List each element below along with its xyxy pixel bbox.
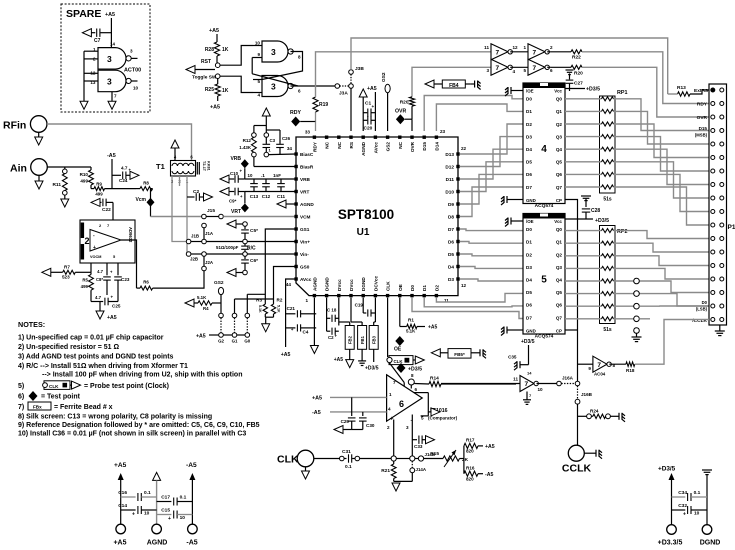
svg-text:D5: D5 bbox=[448, 252, 454, 257]
svg-text:1nF: 1nF bbox=[273, 173, 281, 178]
ground R21 bbox=[394, 480, 413, 482]
jumper J2B bbox=[186, 252, 191, 257]
wire switch to latch bbox=[220, 46, 253, 66]
svg-text:4) R/C --> Install 51Ω when d: 4) R/C --> Install 51Ω when driving from… bbox=[18, 363, 188, 370]
svg-text:820: 820 bbox=[466, 449, 474, 454]
inverter U4A bbox=[491, 44, 508, 60]
svg-text:D3: D3 bbox=[448, 277, 454, 282]
svg-text:D2: D2 bbox=[434, 285, 439, 291]
wire Vin- row bbox=[243, 252, 248, 257]
svg-text:Q3: Q3 bbox=[556, 134, 563, 139]
capacitor C27 bbox=[566, 69, 574, 71]
wire VCM to U1 bbox=[223, 216, 296, 218]
svg-text:C27: C27 bbox=[574, 81, 583, 87]
capacitor C22 bbox=[91, 198, 100, 206]
svg-text:1K: 1K bbox=[222, 47, 229, 53]
svg-text:FB3: FB3 bbox=[372, 335, 377, 344]
svg-text:= Test point: = Test point bbox=[41, 394, 81, 401]
ferrite bead FB1 bbox=[358, 326, 367, 350]
svg-text:Q2: Q2 bbox=[556, 122, 563, 127]
wire T1 pin3 to J1B bbox=[172, 176, 186, 242]
capacitor C17 0.1 bbox=[157, 501, 172, 503]
svg-text:-A5: -A5 bbox=[312, 410, 321, 416]
svg-text:CLK: CLK bbox=[394, 359, 404, 364]
svg-text:NC: NC bbox=[337, 141, 342, 148]
svg-text:CLK: CLK bbox=[386, 281, 391, 291]
svg-text:C6*: C6* bbox=[250, 258, 258, 264]
svg-text:AC04: AC04 bbox=[594, 372, 606, 377]
resistor R16 820 bbox=[464, 471, 478, 476]
test point to ground (RP2) bbox=[634, 328, 640, 334]
capacitor C26 bbox=[266, 129, 280, 131]
resistor R3 bbox=[263, 304, 267, 314]
svg-text:VRB: VRB bbox=[230, 156, 241, 162]
svg-text:DVcc: DVcc bbox=[349, 279, 354, 291]
wire latch cross-coupling bbox=[262, 52, 303, 80]
net +D3/5 latch 4 Vcc + C27 join bbox=[565, 88, 585, 90]
svg-text:5.1K: 5.1K bbox=[197, 295, 207, 300]
capacitor C31 0.1 bbox=[314, 458, 340, 460]
resistor R25 1K bbox=[215, 84, 220, 96]
svg-text:499: 499 bbox=[80, 179, 88, 184]
svg-text:R2: R2 bbox=[277, 298, 283, 303]
svg-text:R24: R24 bbox=[590, 409, 599, 414]
svg-text:+: + bbox=[132, 512, 135, 518]
jumper J16B bbox=[577, 386, 579, 400]
resistor R7 523 bbox=[42, 268, 51, 276]
wire VRB to U1 bbox=[245, 178, 296, 180]
svg-text:523: 523 bbox=[62, 275, 70, 280]
svg-text:D12: D12 bbox=[445, 165, 454, 170]
svg-text:/OE: /OE bbox=[526, 89, 534, 94]
svg-text:GS2: GS2 bbox=[214, 280, 224, 286]
capacitor C25 4.7 bbox=[91, 301, 103, 303]
svg-text:Vcc: Vcc bbox=[554, 89, 562, 94]
jumper J1A vertical bbox=[202, 223, 207, 228]
net +D3/5 latch 5 Vcc bbox=[565, 218, 593, 220]
op-amp U2 AD9632 block bbox=[80, 220, 135, 263]
resistor network RP1 bbox=[600, 96, 616, 193]
IC latch 4 ACQ574 body bbox=[523, 83, 565, 204]
resistor R20b bbox=[551, 66, 571, 68]
wire bus U1 D0-D2 to latch U6 bbox=[436, 293, 523, 302]
wire J3B to ExtRS (top route) bbox=[351, 38, 668, 94]
nand gate U3A (spare) bbox=[98, 48, 126, 70]
svg-text:D13: D13 bbox=[445, 152, 454, 157]
wire R15 to R16 R17 bbox=[460, 458, 464, 460]
svg-text:R16: R16 bbox=[466, 466, 475, 471]
svg-text:T2-1T: T2-1T bbox=[202, 161, 206, 172]
svg-text:2: 2 bbox=[85, 236, 90, 246]
svg-text:D14: D14 bbox=[434, 142, 439, 151]
svg-text:7: 7 bbox=[597, 362, 601, 369]
svg-text:G1: G1 bbox=[232, 339, 238, 344]
wire OVR to inverter U4C bbox=[412, 67, 491, 97]
svg-text:+: + bbox=[93, 245, 96, 251]
svg-text:+A5: +A5 bbox=[209, 28, 219, 34]
svg-text:J1A: J1A bbox=[205, 231, 214, 236]
svg-text:4: 4 bbox=[513, 69, 516, 74]
resistor R18 bbox=[609, 363, 626, 365]
U1 bottom pins bbox=[313, 294, 316, 297]
svg-text:OVR: OVR bbox=[395, 109, 406, 115]
jumper J3B bbox=[349, 70, 354, 75]
svg-text:VCM: VCM bbox=[300, 215, 311, 220]
svg-text:499: 499 bbox=[95, 192, 103, 197]
svg-text:Q7: Q7 bbox=[556, 185, 563, 190]
capacitor GND latch 5 bbox=[507, 329, 511, 331]
svg-text:NOTES:: NOTES: bbox=[18, 320, 45, 329]
ground P1 bbox=[719, 325, 721, 331]
capacitor C36 (FB4) bbox=[471, 83, 475, 85]
svg-text:P1: P1 bbox=[728, 224, 735, 231]
svg-text:Vcm: Vcm bbox=[135, 197, 146, 203]
capacitor C14 10 bbox=[121, 509, 136, 511]
capacitor C23 bbox=[117, 263, 119, 275]
resistor R12 1.43K bbox=[254, 125, 266, 127]
resistor R28 1K bbox=[214, 42, 219, 56]
inverter U4B bbox=[528, 44, 545, 60]
svg-text:ACQ574: ACQ574 bbox=[535, 334, 554, 340]
ground U8A bbox=[526, 392, 528, 400]
svg-text:2: 2 bbox=[550, 45, 553, 50]
capacitor C19 bbox=[362, 298, 364, 313]
svg-text:C9*: C9* bbox=[229, 199, 237, 204]
wire latch CP clock net bbox=[565, 200, 578, 382]
svg-text:10: 10 bbox=[255, 41, 261, 46]
svg-text:RP2: RP2 bbox=[617, 229, 628, 235]
svg-text:R20: R20 bbox=[574, 71, 583, 77]
svg-text:R8: R8 bbox=[143, 181, 149, 186]
wire pin2 to clock row bbox=[393, 420, 395, 457]
svg-text:+: + bbox=[111, 295, 114, 300]
svg-text:D7: D7 bbox=[526, 185, 532, 190]
svg-text:D15: D15 bbox=[699, 126, 708, 131]
svg-text:Q4: Q4 bbox=[556, 147, 563, 152]
resistor R8 bbox=[140, 187, 153, 191]
connector +A5 banana bbox=[116, 524, 126, 534]
wire BiasC row bbox=[264, 152, 269, 157]
ferrite bead FB2 bbox=[345, 326, 354, 350]
wire pins 5 6 latch enable bbox=[414, 392, 428, 394]
svg-text:12: 12 bbox=[513, 45, 519, 50]
svg-text:+D3/5: +D3/5 bbox=[595, 218, 609, 224]
svg-text:OE: OE bbox=[398, 284, 403, 291]
svg-text:C31: C31 bbox=[342, 449, 351, 455]
svg-text:DGND: DGND bbox=[325, 277, 330, 291]
svg-text:Vcc: Vcc bbox=[554, 219, 562, 224]
svg-text:Q4: Q4 bbox=[556, 278, 563, 283]
resistor R2 bbox=[271, 304, 275, 314]
svg-text:R20: R20 bbox=[400, 100, 409, 106]
svg-text:5: 5 bbox=[523, 68, 526, 73]
svg-text:GND: GND bbox=[526, 198, 536, 203]
svg-text:3: 3 bbox=[107, 54, 112, 64]
svg-text:+A5: +A5 bbox=[312, 396, 322, 402]
svg-text:Q0: Q0 bbox=[556, 227, 563, 232]
svg-text:OE: OE bbox=[394, 347, 402, 353]
svg-text:C5*: C5* bbox=[250, 228, 258, 234]
svg-text:Q1: Q1 bbox=[556, 240, 563, 245]
svg-text:= Probe test point (Clock): = Probe test point (Clock) bbox=[84, 383, 169, 390]
svg-text:R3: R3 bbox=[256, 298, 262, 303]
svg-text:R7: R7 bbox=[64, 265, 70, 270]
svg-text:0.1: 0.1 bbox=[345, 464, 352, 470]
wire RP2 outputs to P1 bbox=[614, 231, 710, 239]
svg-text:1: 1 bbox=[305, 298, 308, 303]
svg-text:+D3/5: +D3/5 bbox=[521, 339, 535, 345]
svg-text:11: 11 bbox=[484, 45, 489, 50]
svg-text:(MSB): (MSB) bbox=[695, 133, 708, 138]
svg-text:Q1: Q1 bbox=[556, 109, 563, 114]
capacitor C15 10 bbox=[157, 514, 172, 516]
svg-text:AGND: AGND bbox=[312, 277, 317, 291]
svg-text:Q6: Q6 bbox=[556, 303, 563, 308]
svg-text:RST: RST bbox=[201, 59, 211, 65]
junction pin2 clock row bbox=[391, 456, 396, 461]
svg-text:SPARE: SPARE bbox=[66, 8, 101, 20]
resistor R9 499 bbox=[91, 188, 94, 190]
resistor R5 499 bbox=[89, 275, 94, 291]
svg-text:D2: D2 bbox=[526, 122, 532, 127]
svg-text:Q7: Q7 bbox=[556, 315, 563, 320]
svg-text:R17: R17 bbox=[466, 438, 475, 443]
capacitor C21 bbox=[286, 313, 296, 315]
svg-text:J3B: J3B bbox=[355, 66, 364, 72]
svg-text:/OE: /OE bbox=[526, 219, 534, 224]
svg-text:FBx: FBx bbox=[33, 404, 42, 409]
capacitor C7 bbox=[82, 29, 91, 37]
svg-text:CP: CP bbox=[556, 198, 562, 203]
svg-text:+D3/5: +D3/5 bbox=[586, 87, 600, 93]
connector P1 pins bbox=[711, 88, 715, 92]
svg-text:+: + bbox=[683, 512, 686, 518]
wire RS net to U1 bbox=[350, 88, 352, 131]
jumper J2A vertical bbox=[203, 256, 205, 266]
svg-text:RS: RS bbox=[349, 142, 354, 149]
svg-text:9: 9 bbox=[257, 52, 260, 57]
svg-text:R28: R28 bbox=[205, 47, 214, 53]
svg-text:R19: R19 bbox=[319, 102, 328, 108]
svg-text:+: + bbox=[168, 516, 171, 522]
svg-text:U1: U1 bbox=[357, 227, 370, 238]
svg-text:1K: 1K bbox=[222, 88, 229, 94]
svg-text:51s: 51s bbox=[603, 327, 612, 333]
svg-text:4: 4 bbox=[257, 93, 260, 98]
svg-text:820: 820 bbox=[466, 477, 474, 482]
wire GS1 pulldown bbox=[265, 229, 296, 304]
svg-text:VRT: VRT bbox=[300, 190, 310, 195]
test point +D3/5 bbox=[397, 363, 406, 373]
svg-text:C12: C12 bbox=[262, 194, 271, 199]
svg-text:J14A: J14A bbox=[416, 467, 427, 472]
svg-text:C19: C19 bbox=[355, 303, 364, 308]
svg-text:D0: D0 bbox=[410, 285, 415, 291]
connector AGND banana bbox=[152, 524, 162, 534]
wire R19 to inverter U4A bbox=[316, 52, 492, 97]
resistor R22 bbox=[551, 51, 571, 53]
svg-text:C 18: C 18 bbox=[327, 308, 337, 313]
svg-text:7: 7 bbox=[393, 380, 396, 385]
capacitor /OE latch 4 bbox=[511, 90, 515, 92]
switch contact (RST bottom) bbox=[215, 74, 220, 79]
svg-text:4.7: 4.7 bbox=[121, 166, 128, 171]
svg-text:D9: D9 bbox=[448, 202, 454, 207]
svg-text:BiasC: BiasC bbox=[300, 152, 314, 157]
svg-text:+A5: +A5 bbox=[367, 86, 377, 92]
wire bus U1 D3-D7 to latch U6 bbox=[460, 229, 523, 231]
svg-text:D5: D5 bbox=[526, 290, 532, 295]
capacitor CCLK to ground bbox=[584, 452, 592, 454]
svg-text:C28: C28 bbox=[591, 208, 600, 214]
net +A5 rail (U1 AGND bypass) bbox=[286, 279, 296, 347]
svg-text:10: 10 bbox=[694, 511, 700, 517]
svg-text:DCVcc: DCVcc bbox=[373, 275, 378, 291]
inverter U8A clock bbox=[441, 383, 520, 385]
svg-text:C8*: C8* bbox=[96, 277, 103, 282]
svg-text:6: 6 bbox=[415, 387, 418, 392]
svg-text:D8: D8 bbox=[448, 215, 454, 220]
resistor R10 499 bbox=[90, 167, 92, 170]
test points on data lines bbox=[614, 305, 635, 307]
arrow AGND (comparator caps) bbox=[352, 429, 363, 431]
svg-text:+A5: +A5 bbox=[113, 540, 126, 547]
svg-text:R22: R22 bbox=[572, 55, 581, 61]
inverter U4D bbox=[528, 59, 545, 75]
net +A5 (bottom of R25) bbox=[217, 96, 219, 101]
svg-text:7: 7 bbox=[114, 94, 117, 99]
svg-text:AGND: AGND bbox=[300, 202, 314, 207]
svg-text:R9: R9 bbox=[96, 182, 102, 187]
svg-text:1.43K: 1.43K bbox=[239, 145, 252, 150]
svg-text:D6: D6 bbox=[526, 172, 532, 177]
svg-text:C23: C23 bbox=[121, 277, 130, 282]
svg-text:.1: .1 bbox=[261, 173, 265, 178]
wire T1 pin1 to J2B bbox=[185, 176, 188, 254]
connector CLK bbox=[297, 450, 314, 467]
svg-text:C29: C29 bbox=[341, 419, 350, 424]
svg-text:R25: R25 bbox=[205, 87, 214, 93]
svg-text:R5: R5 bbox=[82, 278, 88, 283]
svg-text:C3: C3 bbox=[270, 138, 276, 143]
svg-text:J16A: J16A bbox=[562, 376, 574, 381]
svg-text:3: 3 bbox=[271, 47, 276, 57]
capacitor C4 bbox=[286, 327, 296, 329]
capacitor C1 bbox=[363, 112, 367, 114]
jumper J15 bbox=[151, 216, 202, 218]
wire Vin+ row bbox=[243, 239, 248, 244]
svg-text:= Ferrite Bead # x: = Ferrite Bead # x bbox=[54, 404, 113, 411]
svg-text:4.7: 4.7 bbox=[95, 295, 102, 300]
capacitor C16 0.1 bbox=[121, 496, 136, 498]
svg-text:D15: D15 bbox=[422, 142, 427, 151]
svg-text:7: 7 bbox=[496, 65, 500, 72]
svg-text:R10: R10 bbox=[80, 172, 89, 177]
U1 top pins bbox=[313, 136, 316, 139]
svg-text:+D3/5: +D3/5 bbox=[658, 466, 676, 473]
jumper J3A bbox=[335, 84, 340, 89]
capacitor /OE latch 5 bbox=[511, 220, 515, 222]
svg-text:CLK: CLK bbox=[277, 454, 299, 466]
svg-text:GS0: GS0 bbox=[300, 265, 310, 270]
wire RFin to T1 bbox=[47, 124, 192, 161]
test point OE bbox=[395, 336, 404, 346]
resistor R21 bbox=[393, 461, 395, 464]
ground (spare left) bbox=[83, 51, 85, 101]
capacitor C6* (GS0) bbox=[244, 256, 246, 259]
svg-text:VRT: VRT bbox=[231, 209, 241, 215]
svg-text:6: 6 bbox=[298, 89, 301, 94]
svg-text:8) Silk screen: C13 = wrong po: 8) Silk screen: C13 = wrong polarity, C8… bbox=[18, 414, 212, 421]
svg-text:D6: D6 bbox=[448, 240, 454, 245]
comparator U7 LT1016 bbox=[387, 375, 423, 421]
connector +D3.3/5 banana bbox=[667, 525, 677, 535]
svg-text:VOCM: VOCM bbox=[90, 255, 101, 259]
svg-text:C1: C1 bbox=[365, 101, 371, 107]
svg-text:D7: D7 bbox=[526, 315, 532, 320]
resistor network RP2 bbox=[600, 226, 616, 324]
svg-text:GS1: GS1 bbox=[300, 227, 310, 232]
svg-text:NC: NC bbox=[398, 141, 403, 148]
svg-text:-A5: -A5 bbox=[186, 462, 197, 469]
svg-text:DGND: DGND bbox=[361, 277, 366, 291]
resistor R20 (OVR pullup) bbox=[409, 97, 414, 106]
svg-text:D0: D0 bbox=[526, 227, 532, 232]
svg-text:Toggle SW: Toggle SW bbox=[192, 75, 217, 81]
svg-text:+A5: +A5 bbox=[105, 12, 115, 18]
svg-text:9) Reference Designation follo: 9) Reference Designation followed by * a… bbox=[18, 422, 260, 429]
svg-text:Q0: Q0 bbox=[556, 97, 563, 102]
svg-text:7: 7 bbox=[533, 49, 537, 56]
wire R22 to P1 RDY bbox=[582, 52, 709, 104]
svg-text:10: 10 bbox=[538, 387, 544, 392]
svg-text:D3: D3 bbox=[526, 134, 532, 139]
svg-text:+A5: +A5 bbox=[334, 357, 344, 363]
svg-text:BiasR: BiasR bbox=[300, 165, 314, 170]
svg-text:C11: C11 bbox=[277, 194, 286, 199]
svg-text:+A5: +A5 bbox=[281, 352, 291, 358]
svg-text:GS2: GS2 bbox=[386, 142, 391, 152]
svg-text:C30: C30 bbox=[366, 423, 375, 428]
svg-text:Q3: Q3 bbox=[556, 265, 563, 270]
svg-text:C20: C20 bbox=[364, 126, 373, 132]
svg-text:C35: C35 bbox=[508, 355, 517, 360]
svg-text:D11: D11 bbox=[446, 177, 455, 182]
svg-text:C34: C34 bbox=[678, 490, 687, 496]
jumper J16A bbox=[557, 381, 562, 386]
svg-text:1: 1 bbox=[389, 392, 392, 397]
capacitor C33 bbox=[412, 439, 417, 441]
svg-text:22: 22 bbox=[461, 146, 467, 151]
svg-text:R14: R14 bbox=[430, 376, 439, 382]
wire /CCLK to P1 bbox=[635, 320, 709, 365]
U1 left pins bbox=[294, 152, 297, 155]
svg-text:C2: C2 bbox=[193, 189, 199, 195]
inverter U4C bbox=[491, 59, 508, 75]
svg-text:10: 10 bbox=[180, 515, 186, 521]
svg-text:2) Un-specified resistor = 51: 2) Un-specified resistor = 51 Ω bbox=[18, 344, 120, 351]
wire AGND down bbox=[313, 298, 315, 346]
svg-text:6: 6 bbox=[399, 399, 404, 409]
svg-text:14: 14 bbox=[527, 371, 532, 376]
capacitor C32 10 bbox=[672, 509, 686, 511]
svg-text:CCLK: CCLK bbox=[562, 463, 592, 475]
svg-text:0.1: 0.1 bbox=[144, 490, 151, 496]
wire Ain node bbox=[47, 166, 91, 168]
svg-text:R15: R15 bbox=[430, 451, 439, 457]
net AGND arrow (U1 top) bbox=[362, 97, 364, 131]
svg-text:8: 8 bbox=[411, 373, 414, 378]
